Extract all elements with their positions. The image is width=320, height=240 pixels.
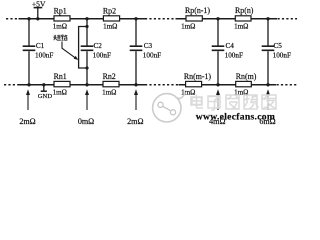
svg-text:Rp(n-1): Rp(n-1) [185,6,210,15]
svg-text:Rn(m): Rn(m) [236,72,257,81]
svg-text:Rp1: Rp1 [54,6,67,15]
svg-text:1mΩ: 1mΩ [53,89,67,97]
svg-text:0mΩ: 0mΩ [78,117,94,126]
svg-text:100nF: 100nF [225,52,243,60]
svg-text:2mΩ: 2mΩ [19,117,35,126]
svg-text:Rp2: Rp2 [103,6,116,15]
svg-text:100nF: 100nF [93,52,111,60]
svg-text:100nF: 100nF [35,52,53,60]
svg-text:GND: GND [38,93,53,100]
svg-text:4mΩ: 4mΩ [209,117,225,126]
svg-text:C3: C3 [144,42,153,50]
svg-text:1mΩ: 1mΩ [181,22,195,30]
svg-text:Rp(n): Rp(n) [235,6,254,15]
svg-text:100nF: 100nF [143,52,161,60]
svg-text:100nF: 100nF [273,52,291,60]
svg-text:C5: C5 [274,42,283,50]
svg-text:1mΩ: 1mΩ [234,22,248,30]
svg-text:C2: C2 [94,42,103,50]
svg-text:C1: C1 [36,42,45,50]
svg-text:1mΩ: 1mΩ [103,22,117,30]
svg-text:Rn(m-1): Rn(m-1) [184,72,212,81]
svg-text:2mΩ: 2mΩ [127,117,143,126]
svg-text:C4: C4 [226,42,235,50]
svg-text:1mΩ: 1mΩ [53,22,67,30]
svg-text:+5V: +5V [32,0,46,9]
svg-text:6mΩ: 6mΩ [259,117,275,126]
svg-text:1mΩ: 1mΩ [102,89,116,97]
svg-text:Rn2: Rn2 [103,72,116,81]
svg-text:Rn1: Rn1 [54,72,67,81]
